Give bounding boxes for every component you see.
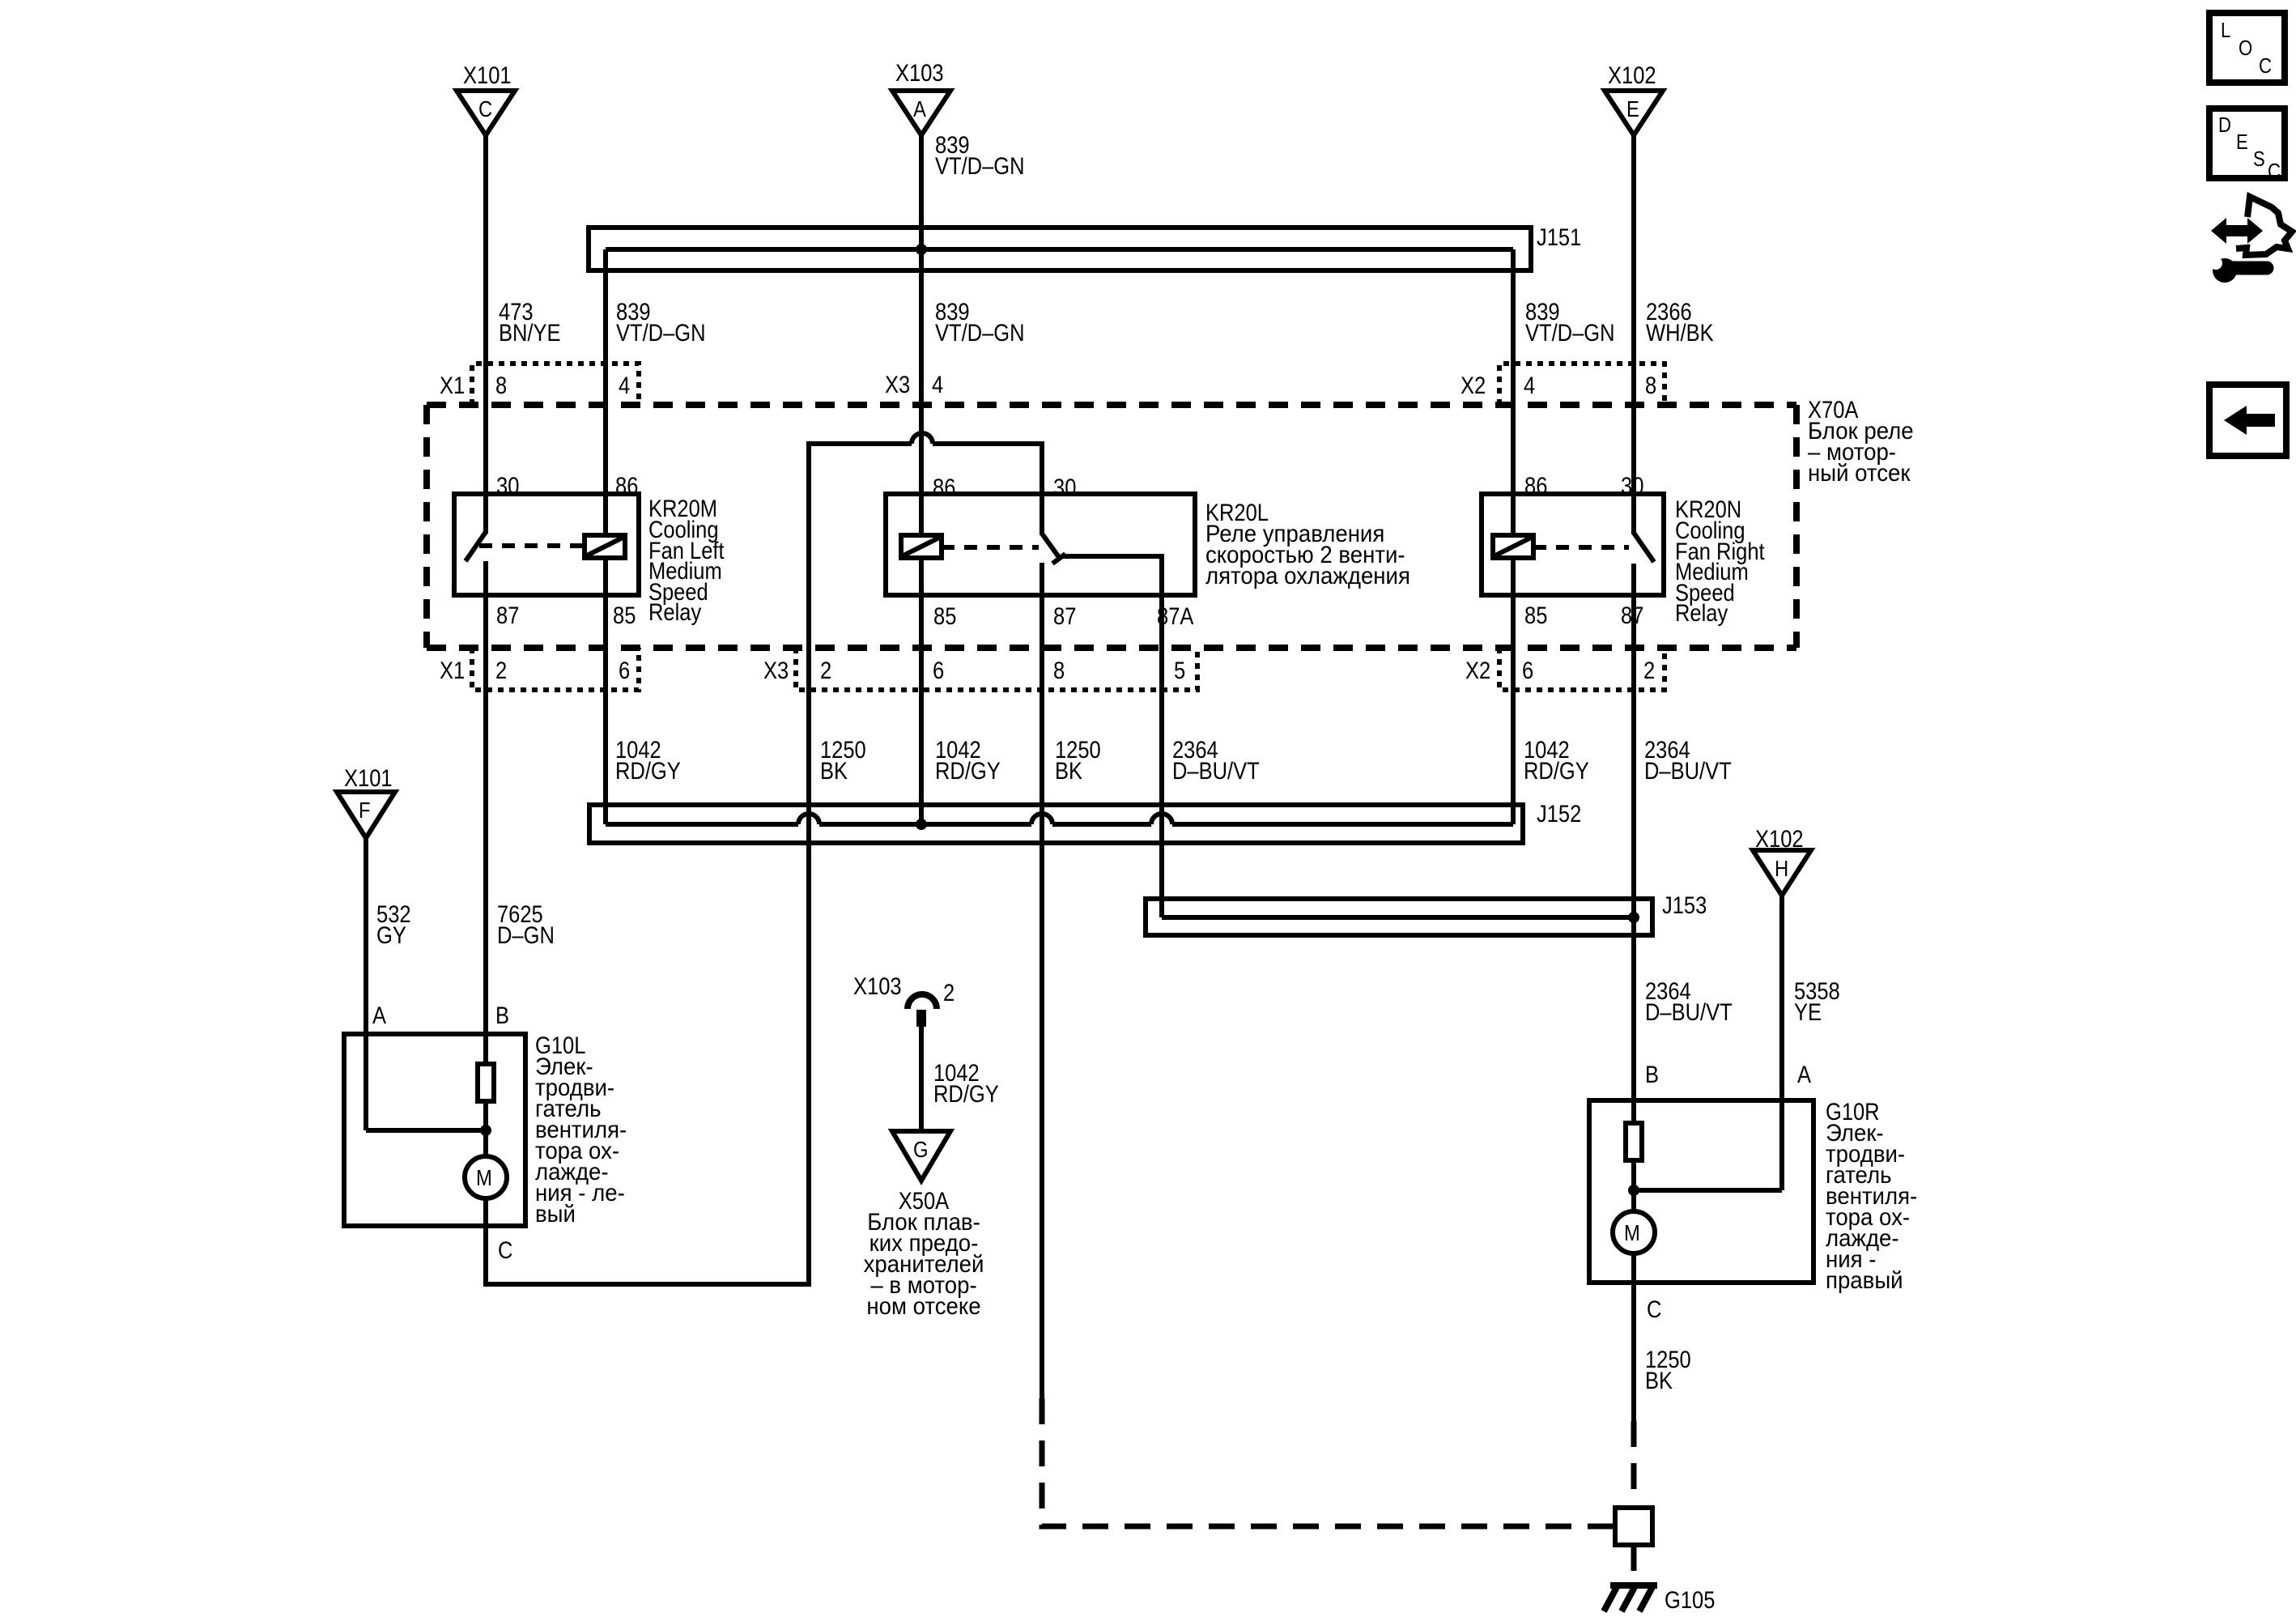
relay KR20N box [1482, 494, 1664, 595]
splice bus J153 outer outline [1146, 899, 1652, 935]
svg-text:8: 8 [495, 372, 507, 399]
svg-text:RD/GY: RD/GY [1524, 758, 1589, 785]
svg-text:O: O [2239, 36, 2252, 60]
svg-text:A: A [913, 96, 926, 121]
svg-text:правый: правый [1826, 1267, 1903, 1294]
ground triangle G (X50A) [892, 1131, 950, 1181]
motor G10L box [344, 1034, 525, 1226]
connector triangle X101 pin F [337, 792, 395, 838]
connector triangle X102 pin E [1605, 91, 1663, 135]
wire 473 BN/YE from X101-C down to relay KR20M pin 30 [483, 135, 488, 534]
svg-text:6: 6 [933, 657, 944, 684]
svg-text:87: 87 [1053, 603, 1076, 630]
connector X101 label (F) [344, 765, 393, 792]
connector X1 top labels pins 8 and 4 [440, 372, 630, 399]
connector X101 label (C) [463, 62, 512, 89]
svg-text:вый: вый [535, 1201, 576, 1228]
motor G10R internal wire resistor to motor [1631, 1160, 1636, 1211]
relay KR20N coil link dashed [1533, 545, 1629, 550]
svg-text:4: 4 [932, 372, 943, 398]
label J153 [1662, 892, 1707, 919]
wire label 1042 RD/GY (to ground G) [933, 1060, 999, 1108]
wire 839 VT/D&#8211;GN from X103-A down through J151 to relay KR20L pin 86 [919, 135, 924, 535]
svg-text:BK: BK [1645, 1368, 1673, 1394]
relay KR20L contact 87A link [1061, 556, 1162, 595]
motor G10R internal resistor [1626, 1123, 1642, 1160]
svg-text:D–BU/VT: D–BU/VT [1645, 999, 1733, 1026]
svg-text:H: H [1775, 856, 1788, 881]
wire label 1042 RD/GY (X2-6) [1524, 737, 1589, 785]
svg-text:RD/GY: RD/GY [615, 758, 681, 785]
connector X3 bottom labels pins 2 6 8 5 [763, 657, 1185, 684]
wire label 839 VT/D&#8211;GN (X2-4) [1525, 299, 1615, 347]
wire label 2364 D&#8211;BU/VT (to G10R B) [1645, 978, 1733, 1026]
connector X103 label (A) [895, 60, 944, 87]
wire from X103-2 to ground triangle G [919, 1027, 924, 1131]
motor G10L pin labels A B [372, 1002, 509, 1029]
wire label 1250 BK (G10R C) [1645, 1347, 1691, 1394]
motor G10L pin label C [498, 1237, 512, 1264]
svg-text:X103: X103 [853, 973, 902, 1000]
svg-text:2: 2 [1643, 657, 1655, 684]
splice bus J152 middle conductor with hops [606, 814, 1513, 824]
svg-text:G: G [913, 1137, 929, 1162]
svg-text:S: S [2253, 147, 2265, 171]
motor G10R label text [1826, 1099, 1917, 1294]
relay KR20M pin labels 30 86 [496, 473, 638, 500]
svg-text:86: 86 [1524, 473, 1547, 500]
motor G10R box [1589, 1100, 1813, 1283]
connector X102 label (H) [1755, 826, 1804, 853]
junction dot on J152 at wire 1042 (X3-6) [916, 819, 927, 830]
svg-text:A: A [372, 1002, 386, 1029]
relay KR20M label text [648, 496, 725, 626]
inline connector square on ground path [1615, 1508, 1652, 1545]
inline connector X103 pin 2 labels [853, 973, 955, 1006]
svg-text:X2: X2 [1465, 657, 1490, 684]
svg-text:GY: GY [376, 922, 406, 949]
svg-text:M: M [476, 1165, 492, 1190]
connector triangle X102 pin H [1753, 850, 1811, 896]
svg-text:WH/BK: WH/BK [1646, 320, 1714, 347]
svg-text:30: 30 [1053, 474, 1076, 501]
wire label 7625 D-GN [497, 901, 555, 949]
svg-text:L: L [2221, 18, 2230, 42]
wire label 839 VT/D&#8211;GN (X1-4) [616, 299, 706, 347]
relay KR20M pin labels 87 85 [496, 602, 636, 629]
wire label 1042 RD/GY (X1-6) [615, 737, 681, 785]
svg-text:ном отсеке: ном отсеке [866, 1293, 980, 1320]
svg-text:86: 86 [933, 474, 955, 501]
svg-text:VT/D–GN: VT/D–GN [935, 153, 1025, 180]
svg-text:RD/GY: RD/GY [935, 758, 1001, 785]
splice bus J152 outer outline [589, 805, 1523, 843]
inline connector X103-2 arc symbol [908, 994, 937, 1027]
relay KR20L switch blade [1042, 534, 1065, 564]
wire relay KR20M pin 85 to J152 (1042 RD/GY) [603, 558, 608, 824]
svg-text:Relay: Relay [1675, 600, 1728, 627]
wire label 839 VT/D&#8211;GN (X3-4) [935, 299, 1025, 347]
wire label 1042 RD/GY (X3-6) [935, 737, 1001, 785]
connector X2 top pin box [1499, 364, 1665, 405]
svg-text:8: 8 [1053, 657, 1065, 684]
svg-text:M: M [1624, 1220, 1640, 1245]
svg-text:8: 8 [1645, 372, 1656, 399]
svg-text:J151: J151 [1537, 224, 1581, 251]
wire relay KR20L pin 87 down (1250 BK) solid part [1040, 563, 1044, 1398]
svg-text:BK: BK [820, 758, 848, 785]
svg-text:85: 85 [613, 602, 636, 629]
label G105 [1665, 1587, 1715, 1614]
connector X102 label (E) [1608, 62, 1656, 89]
relay KR20N pin labels 86 30 [1524, 473, 1643, 500]
svg-text:X102: X102 [1608, 62, 1656, 89]
svg-text:85: 85 [1524, 602, 1547, 629]
motor G10L internal wire resistor to motor [483, 1101, 488, 1156]
wire label 1250 BK (X3-8) [1055, 737, 1101, 785]
junction dot on J151 at wire 839 [916, 244, 927, 255]
motor G10L wire M to pin C [483, 1198, 488, 1226]
motor G10L internal branch from pin A [366, 1128, 486, 1133]
svg-text:C: C [2259, 53, 2272, 78]
relay KR20L label text [1205, 500, 1410, 589]
wire 532 GY from X101-F to G10L pin A [364, 838, 368, 1130]
svg-text:C: C [478, 96, 492, 121]
svg-text:X3: X3 [763, 657, 789, 684]
wire label 473 BN/YE [499, 299, 561, 347]
svg-text:X2: X2 [1461, 372, 1486, 399]
wire 5358 YE from X102-H to G10R pin A [1779, 896, 1784, 1190]
relay KR20L coil [901, 535, 942, 558]
svg-text:X101: X101 [344, 765, 393, 792]
icon back arrow box [2209, 385, 2286, 456]
icon LOC box [2209, 13, 2285, 83]
svg-text:C: C [2268, 159, 2281, 183]
svg-text:6: 6 [619, 657, 630, 684]
wire label 1250 BK (X3-2) [820, 737, 866, 785]
svg-text:J152: J152 [1537, 801, 1581, 828]
motor G10R internal branch from pin A [1634, 1188, 1782, 1193]
svg-text:2: 2 [495, 657, 507, 684]
icon harness routing (double arrow, connector outline, wrench) [2209, 197, 2292, 283]
label J151 [1537, 224, 1581, 251]
wire 2366 WH/BK from X102-E down to relay KR20N pin 30 [1631, 135, 1636, 534]
connector X3 top labels pin 4 [885, 372, 943, 398]
connector triangle X103 pin A [892, 91, 950, 135]
svg-text:D–BU/VT: D–BU/VT [1172, 758, 1260, 785]
svg-text:D–BU/VT: D–BU/VT [1644, 758, 1732, 785]
svg-text:86: 86 [615, 473, 638, 500]
svg-text:X3: X3 [885, 372, 910, 398]
motor G10L label text [535, 1032, 627, 1228]
svg-text:VT/D–GN: VT/D–GN [935, 320, 1025, 347]
wire label 5358 YE [1794, 978, 1840, 1026]
motor G10R M circle [1613, 1211, 1655, 1253]
relay KR20M box [454, 494, 639, 595]
junction dot on J153 at wire 2364 (X2-2) [1628, 912, 1639, 923]
svg-text:D: D [2218, 113, 2231, 137]
motor G10R pin label C [1647, 1296, 1661, 1323]
svg-text:E: E [2236, 130, 2248, 154]
svg-text:YE: YE [1794, 999, 1822, 1026]
wire 1250 BK from G10R pin C solid part [1631, 1283, 1636, 1421]
wire label 839 VT/D&#8211;GN (below X103-A) [935, 132, 1025, 180]
relay KR20L box [886, 494, 1195, 595]
splice bus J151 middle conductor [606, 247, 1513, 252]
svg-text:5: 5 [1174, 657, 1185, 684]
dashed wire from square to ground G105 [1631, 1545, 1637, 1582]
relay KR20M switch blade [466, 532, 486, 561]
junction dot inside G10L [480, 1125, 491, 1136]
svg-text:X1: X1 [440, 657, 465, 684]
svg-text:F: F [359, 798, 371, 823]
svg-text:2: 2 [820, 657, 831, 684]
svg-text:6: 6 [1522, 657, 1533, 684]
svg-text:VT/D–GN: VT/D–GN [1525, 320, 1615, 347]
connector X2 top labels pins 4 and 8 [1461, 372, 1656, 399]
motor G10L M circle [465, 1156, 507, 1198]
dashed wire 1250 BK from relay KR20L pin 87 to inline square [1042, 1398, 1615, 1526]
svg-text:ный отсек: ный отсек [1808, 460, 1911, 487]
svg-text:D–GN: D–GN [497, 922, 555, 949]
svg-text:B: B [1645, 1062, 1659, 1088]
dashed wire from G10R pin C to inline square [1631, 1421, 1637, 1508]
wire relay KR20L pin 85 to J152 junction (1042 RD/GY) [919, 558, 924, 824]
label J152 [1537, 801, 1581, 828]
connector X2 bottom labels pins 6 and 2 [1465, 657, 1655, 684]
relay KR20M coil [585, 535, 625, 558]
svg-text:30: 30 [496, 473, 519, 500]
svg-text:A: A [1797, 1062, 1811, 1088]
wire label 2366 WH/BK [1646, 299, 1714, 347]
svg-text:X103: X103 [895, 60, 944, 87]
splice bus J153 middle conductor [1162, 915, 1634, 920]
relay block X70A dashed outline [427, 405, 1796, 648]
relay KR20N pin labels 85 87 [1524, 602, 1643, 629]
relay KR20N label text [1675, 496, 1765, 627]
connector triangle X101 pin C [457, 91, 515, 135]
svg-text:J153: J153 [1662, 892, 1707, 919]
wire relay KR20M pin 87 to G10L pin B (7625 D-GN) [483, 561, 488, 1064]
svg-text:BK: BK [1055, 758, 1082, 785]
relay KR20L pin labels 86 30 [933, 474, 1076, 501]
icon DESC box [2209, 109, 2285, 183]
svg-text:30: 30 [1621, 473, 1643, 500]
wire relay KR20N pin 85 to J152 (1042 RD/GY) [1511, 558, 1516, 824]
svg-text:E: E [1626, 96, 1639, 121]
wire label 2364 D&#8211;BU/VT (X3-5) [1172, 737, 1260, 785]
svg-text:X101: X101 [463, 62, 512, 89]
label X70A relay block text [1808, 397, 1914, 487]
label X50A fuse block text [864, 1188, 984, 1320]
connector X2 bottom pin box [1499, 648, 1665, 690]
wire from G10L pin C via X3-2 to relay KR20L pin 30 [486, 433, 1042, 1284]
connector X1 bottom pin box [472, 648, 639, 690]
svg-text:G105: G105 [1665, 1587, 1715, 1614]
relay KR20N coil [1493, 535, 1533, 558]
wire label 2364 D&#8211;BU/VT (X2-2) [1644, 737, 1732, 785]
wire 839 VT/D&#8211;GN from J151 to relay KR20M pin 86 [603, 249, 608, 535]
ground symbol G105 [1604, 1585, 1657, 1611]
wire relay KR20L pin 87A to J153 (2364 D&#8211;BU/VT) [1159, 595, 1164, 917]
svg-text:C: C [498, 1237, 512, 1264]
svg-text:BN/YE: BN/YE [499, 320, 561, 347]
motor G10R wire M to pin C [1631, 1253, 1636, 1283]
motor G10L internal resistor [478, 1064, 494, 1101]
svg-text:VT/D–GN: VT/D–GN [616, 320, 706, 347]
svg-text:RD/GY: RD/GY [933, 1081, 999, 1108]
relay KR20M coil link dashed [479, 543, 585, 548]
svg-text:4: 4 [1524, 372, 1535, 399]
connector X1 bottom labels pins 2 and 6 [440, 657, 630, 684]
wire label 532 GY [376, 901, 411, 949]
wire relay KR20N pin 87 to J153 and G10R pin B (2364 D&#8211;BU/VT) [1631, 564, 1636, 1123]
svg-text:4: 4 [619, 372, 630, 399]
svg-text:87: 87 [496, 602, 519, 629]
connector X3 bottom pin box [796, 648, 1197, 690]
relay KR20L coil link dashed [942, 545, 1039, 550]
svg-text:Relay: Relay [648, 599, 701, 626]
svg-text:X1: X1 [440, 372, 465, 399]
svg-text:85: 85 [933, 603, 956, 630]
motor G10R pin labels B A [1645, 1062, 1811, 1088]
relay KR20L pin labels 85 87 87A [933, 603, 1193, 630]
svg-text:C: C [1647, 1296, 1661, 1323]
connector X1 top pin box [472, 364, 639, 405]
splice bus J151 outer outline [589, 228, 1531, 270]
junction dot inside G10R [1628, 1185, 1639, 1196]
relay KR20N switch blade [1634, 533, 1654, 562]
wire 839 VT/D&#8211;GN from J151 to relay KR20N pin 86 [1511, 249, 1516, 535]
svg-text:лятора охлаждения: лятора охлаждения [1205, 563, 1410, 589]
svg-text:B: B [495, 1002, 509, 1029]
svg-text:2: 2 [943, 980, 955, 1006]
